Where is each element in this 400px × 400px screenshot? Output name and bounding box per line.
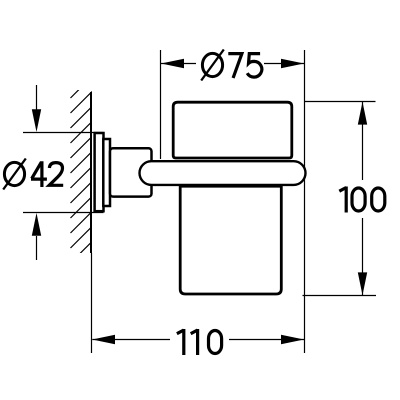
wall hatching [71,77,93,264]
dim Ø42 bottom arrow line [36,236,38,260]
dim Ø42 top reference line [23,132,104,134]
dim Ø75 left extension line [160,50,162,159]
dim 100 upper arrowhead [358,102,367,125]
glass body [180,186,281,294]
dim 100 bottom reference line [303,295,377,297]
glass rim [173,102,292,158]
dim 100 label [339,187,385,213]
holder ring arm [140,161,306,185]
dim Ø42 bottom arrowhead [32,213,41,236]
dim 110 label [177,329,222,355]
dim 110 left arrowhead [92,335,115,344]
mount cone body [110,148,152,196]
dim Ø75 left arrowhead [161,59,184,68]
wall face line [90,92,92,253]
dim Ø42 top arrowhead [32,109,41,132]
dim 110 line right segment [229,339,304,341]
dim Ø42 top arrow line [36,85,38,110]
dim 100 top reference line [305,101,376,103]
dim 100 line upper segment [362,102,364,180]
dim Ø75 line right segment [264,63,304,65]
dim Ø42 label [3,159,63,190]
dim Ø75 label [201,50,262,81]
dim Ø75 right arrowhead [281,59,304,68]
wall extension line (left reference of 110 dim) [91,253,93,353]
mount plate inner flange [103,139,110,206]
dim Ø42 bottom reference line [23,212,104,214]
dim 110 right arrowhead [281,335,304,344]
dim Ø75 line left segment [161,63,196,65]
dim right extension line (Ø75 + 110) [304,50,306,353]
dim 100 lower arrowhead [358,272,367,295]
dim 100 line lower segment [362,218,364,295]
mount plate outer flange [95,133,104,211]
dim 110 line left segment [92,339,170,341]
